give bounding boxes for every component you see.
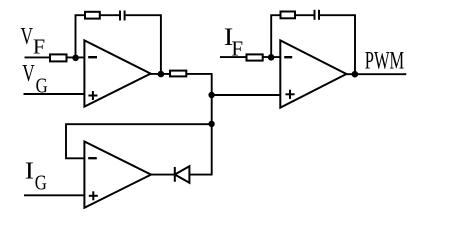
- wire R2 to C1: [101, 14, 119, 16]
- wire R1 to node A: [67, 56, 84, 58]
- wire C2 to output riser: [320, 15, 355, 74]
- node C (junction dot to U3 +): [208, 92, 214, 98]
- wire R5 to C2: [296, 14, 314, 16]
- wire VF input: [25, 56, 52, 58]
- svg-text:I: I: [25, 157, 34, 184]
- U2 non-inverting input marker (+): [89, 191, 98, 200]
- resistor R5 (U3 feedback): [281, 12, 296, 19]
- label VG: [22, 59, 48, 98]
- svg-text:G: G: [35, 172, 47, 195]
- label IF: [224, 23, 243, 61]
- wire VG input: [24, 93, 85, 95]
- resistor R3 (U1 output series): [170, 71, 186, 77]
- wire IF input: [220, 56, 247, 58]
- svg-text:V: V: [21, 22, 33, 50]
- wire U2 output to diode: [151, 174, 175, 176]
- capacitor C2 (U3 feedback): [315, 10, 320, 20]
- op-amp U2 (bottom): [84, 142, 151, 208]
- wire summing bus vertical: [211, 74, 213, 175]
- resistor R2 (U1 feedback): [85, 12, 100, 19]
- wire U2 feedback loop: [66, 124, 212, 158]
- svg-text:F: F: [33, 35, 45, 58]
- svg-text:V: V: [22, 59, 34, 87]
- node B (U1 output junction dot): [158, 71, 165, 78]
- wire R4 to node E: [264, 56, 281, 58]
- U2 inverting input marker (-): [88, 157, 97, 159]
- node F (U3 output junction dot): [352, 71, 359, 78]
- resistor R4 (IF input): [247, 54, 263, 60]
- node E (junction dot at U3 inverting input): [268, 54, 275, 61]
- U3 non-inverting input marker (+): [286, 90, 295, 99]
- node A (junction dot at U1 inverting input): [72, 55, 79, 62]
- capacitor C1 (U1 feedback): [120, 11, 125, 21]
- U1 inverting input marker (-): [88, 56, 97, 58]
- op-amp U3 (top-right): [280, 40, 346, 107]
- label VF: [21, 22, 46, 58]
- resistor R1 (VF input): [50, 54, 67, 61]
- wire C1 to output riser: [126, 15, 161, 74]
- U1 non-inverting input marker (+): [88, 91, 97, 100]
- wire U3 output: [346, 73, 406, 75]
- diode D1 cathode bar: [174, 167, 176, 182]
- wire feedback 2 left riser: [271, 15, 280, 57]
- wire R3 to bus riser: [187, 73, 212, 75]
- U3 inverting input marker (-): [284, 56, 292, 58]
- svg-text:PWM: PWM: [365, 46, 405, 74]
- wire node C to U3 non-inverting input: [212, 94, 281, 96]
- op-amp U1 (top-left): [84, 40, 150, 106]
- node D (junction dot to U2 feedback): [208, 121, 214, 127]
- wire U1 output: [150, 73, 170, 75]
- wire IG input: [24, 194, 84, 196]
- wire diode to bus: [189, 174, 212, 176]
- label IG: [25, 157, 47, 195]
- diode D1: [175, 166, 190, 183]
- wire feedback 1 left riser: [76, 15, 86, 58]
